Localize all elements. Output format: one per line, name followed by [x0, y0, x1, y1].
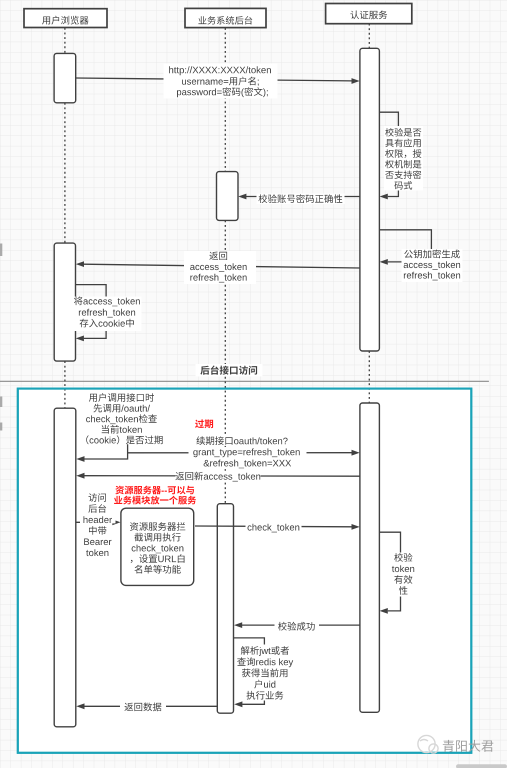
separator line above 后台接口访问 section — [0, 380, 489, 382]
watermark logo circle — [418, 735, 438, 753]
M4 labels — [195, 436, 295, 446]
scrollbar thumb bottom right — [456, 764, 507, 768]
self message SL5 解析jwt — [234, 638, 265, 704]
teal border restroke — [18, 389, 472, 753]
lifeline 业务系统后台 dashed segments — [224, 28, 226, 172]
self message SL4 校验token有效性 — [379, 532, 400, 611]
SL5 label — [237, 645, 295, 701]
message M2 校验账号密码正确性 — [246, 196, 360, 198]
message M5 返回新access_token — [84, 475, 360, 478]
activation bar browser 3 (in box) — [54, 408, 76, 727]
arrow E2 browser to resource box — [76, 521, 113, 523]
message M1 token request line — [76, 78, 352, 81]
lifeline 认证服务 dashed segments — [368, 24, 370, 49]
lifeline 用户浏览器 dashed segments — [64, 28, 66, 54]
activation bar auth top — [360, 48, 380, 351]
actor box 业务系统后台 — [185, 8, 266, 27]
note T2 访问后台header中带Bearer token — [80, 514, 116, 524]
M6 label check_token — [246, 521, 302, 531]
message M3 return tokens — [84, 264, 360, 268]
elbow arrow E1 from note to browser bar — [84, 444, 127, 459]
watermark text 青阳大君 — [443, 740, 494, 752]
activation bar auth in box — [360, 403, 380, 712]
actor box 用户浏览器 — [24, 9, 107, 28]
resource server rounded box — [121, 508, 194, 585]
self message SL3 store cookie — [76, 285, 107, 339]
activation bar browser 2 — [54, 243, 75, 361]
red label 过期 — [195, 419, 213, 428]
actor box 认证服务 — [326, 4, 412, 24]
red note R2 资源服务器 — [115, 486, 194, 495]
message M8 返回数据 — [84, 705, 217, 707]
M3 label 返回 access_token refresh_token — [184, 251, 256, 284]
note T1 用户调用接口时 — [89, 393, 154, 402]
highlight container box (teal) — [18, 389, 472, 753]
activation bar backend in box — [217, 504, 233, 714]
SL3 label 将access_token 存入cookie中 — [73, 297, 142, 332]
left edge canvas artifacts — [0, 244, 2, 257]
message M6 check_token — [195, 525, 352, 528]
SL1 label 校验是否具有应用权限 — [384, 126, 423, 191]
section label 后台接口访问 — [196, 364, 263, 377]
message M4 续期接口 — [128, 452, 352, 454]
activation bar backend top — [217, 172, 239, 221]
message M7 校验成功 — [242, 624, 360, 626]
SL4 label — [389, 553, 419, 597]
self message SL1 auth validation loop — [379, 112, 398, 196]
resource box text — [130, 522, 185, 531]
message M1 label — [164, 64, 278, 99]
SL2 label — [402, 249, 463, 282]
self message SL2 公钥加密生成 — [379, 230, 431, 262]
activation bar browser 1 — [54, 53, 76, 102]
